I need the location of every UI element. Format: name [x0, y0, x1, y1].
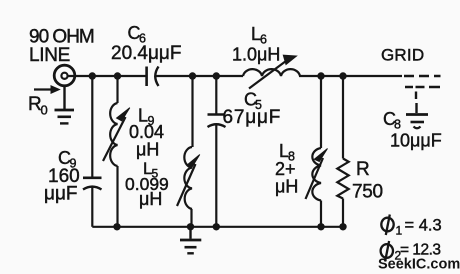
- label phi1 = 4.3: [381, 215, 441, 238]
- resistor R branch: [337, 76, 348, 227]
- capacitor C6: [147, 67, 159, 87]
- capacitor C9 branch: [83, 76, 102, 227]
- coax connector (90 ohm line input): [54, 65, 75, 109]
- svg-text:SeekIC.com: SeekIC.com: [378, 257, 460, 273]
- label phi2 = 12.3: [381, 241, 441, 263]
- svg-text:0: 0: [41, 103, 48, 118]
- svg-text:10μμF: 10μμF: [390, 131, 442, 151]
- ground (bottom center): [180, 227, 201, 254]
- capacitor C8 symbol: [406, 103, 428, 128]
- inductor L9 branch: [103, 76, 130, 227]
- svg-text:20.4μμF: 20.4μμF: [111, 43, 181, 64]
- R0 input arrow: [34, 86, 60, 93]
- svg-text:1.0μH: 1.0μH: [232, 45, 280, 65]
- svg-text:750: 750: [352, 182, 383, 203]
- svg-text:GRID: GRID: [381, 46, 424, 65]
- svg-text:μH: μH: [275, 177, 298, 197]
- inductor L8 branch: [306, 76, 328, 227]
- inductor L5 branch: [177, 76, 200, 227]
- svg-text:μH: μH: [136, 140, 159, 160]
- wire C6 to L6: [156, 75, 244, 77]
- wire top rail left segment: [68, 75, 146, 77]
- wire L6 to grid: [299, 75, 402, 77]
- svg-text:R: R: [356, 159, 370, 180]
- capacitor C5 branch: [208, 76, 226, 227]
- svg-text:μH: μH: [139, 189, 162, 209]
- svg-text:= 4.3: = 4.3: [405, 217, 442, 235]
- svg-text:67μμF: 67μμF: [223, 107, 282, 128]
- svg-text:8: 8: [394, 118, 401, 132]
- svg-text:1: 1: [396, 224, 403, 238]
- wire bottom rail: [92, 226, 343, 228]
- grid dashed lines: [404, 76, 441, 99]
- inductor L6: [243, 55, 300, 88]
- ground (under connector): [55, 110, 75, 123]
- svg-text:LINE: LINE: [29, 45, 70, 66]
- svg-text:μμF: μμF: [44, 184, 78, 205]
